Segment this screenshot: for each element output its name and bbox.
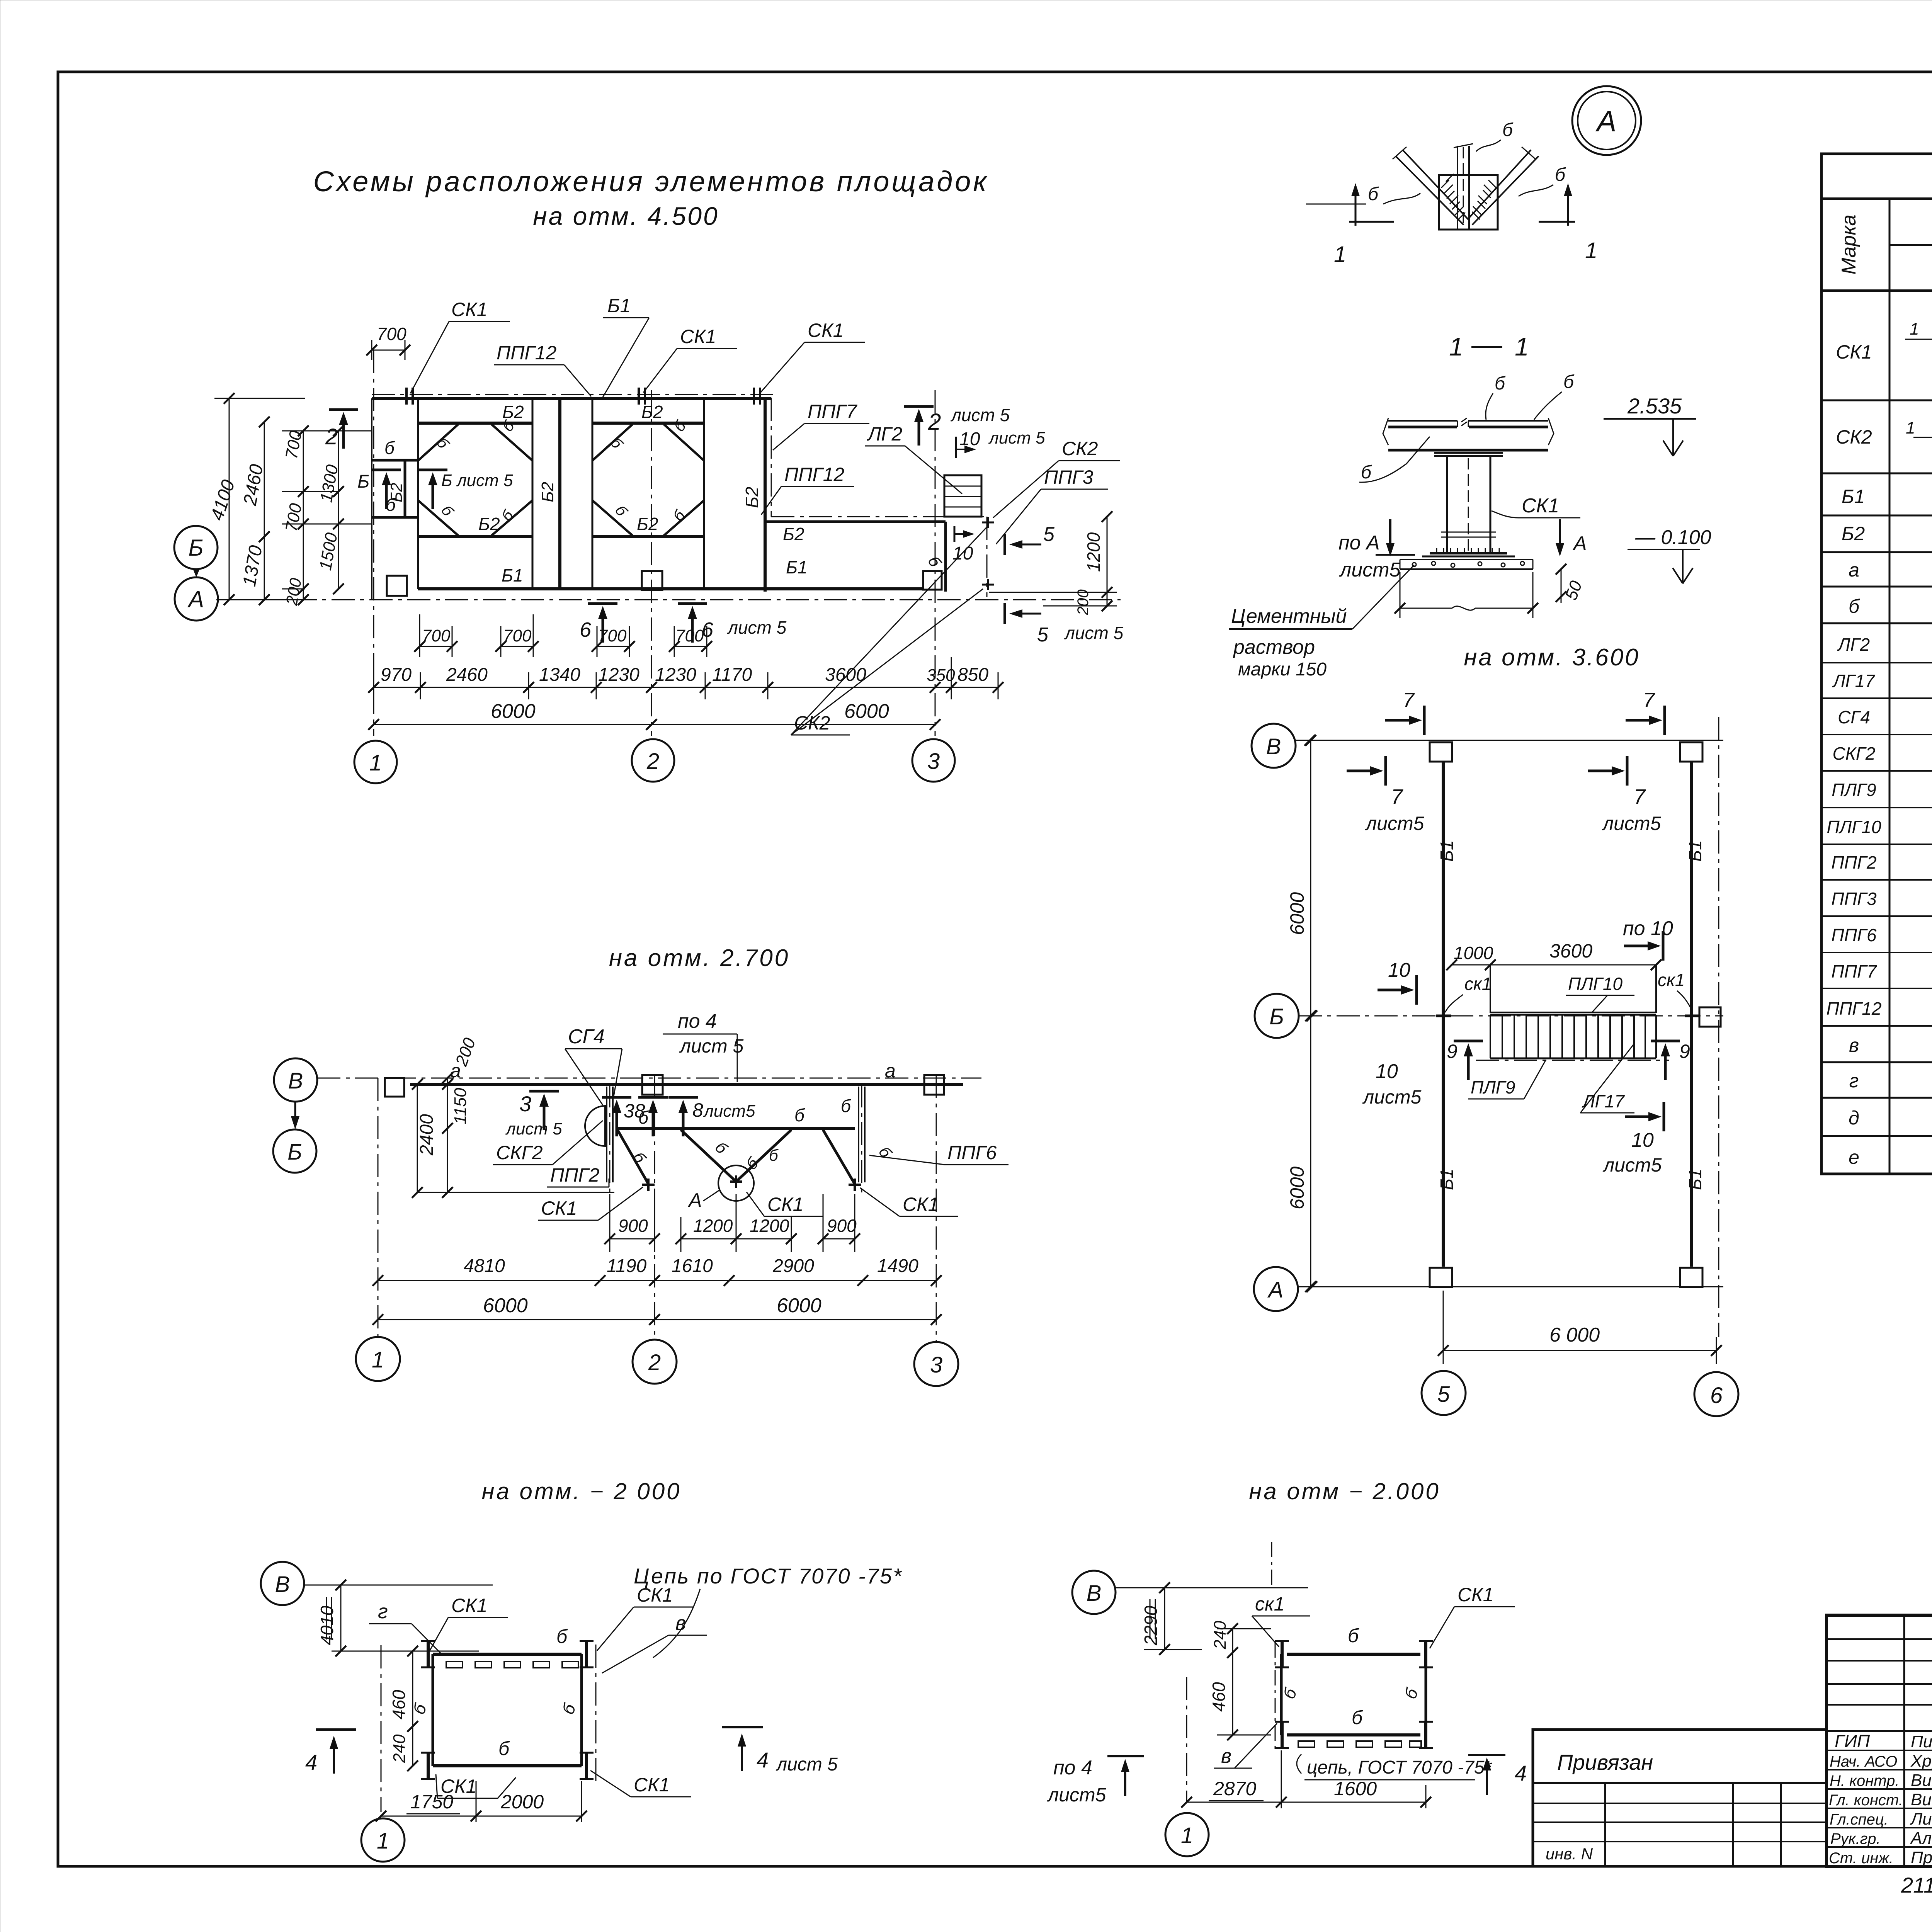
truss diagonal 4: [823, 1130, 855, 1184]
column А6: [1680, 1268, 1702, 1287]
cell 2 top chord Б2: [592, 422, 704, 425]
svg-text:СК1: СК1: [451, 299, 487, 320]
svg-text:Винклер: Винклер: [1911, 1790, 1932, 1809]
svg-text:марки 150: марки 150: [1238, 659, 1327, 680]
svg-text:Пивторак: Пивторак: [1911, 1732, 1932, 1751]
right diagonal member: [1468, 150, 1539, 225]
row д: [1821, 1135, 1932, 1137]
svg-text:А: А: [1267, 1277, 1284, 1303]
svg-text:ППГ6: ППГ6: [947, 1142, 997, 1163]
6 лист5 marks: [588, 604, 617, 643]
8 лист5 mark: [668, 1097, 698, 1136]
svg-text:в: в: [675, 1612, 686, 1634]
svg-text:1: 1: [1906, 418, 1915, 437]
floor beam bottom line: [1388, 449, 1548, 452]
cell 1 right beam: [532, 398, 534, 589]
svg-text:2: 2: [928, 409, 941, 435]
axis circle А: [1254, 1267, 1298, 1311]
svg-text:г: г: [378, 1600, 388, 1623]
ПЛГ10 plate rect: [1490, 965, 1656, 1012]
38 mark arrows: [602, 1097, 631, 1136]
svg-text:1: 1: [1449, 332, 1463, 361]
svg-text:6: 6: [1710, 1383, 1723, 1408]
axis circle В: [1252, 724, 1296, 768]
svg-text:1230: 1230: [598, 665, 639, 685]
beam joint step: [1458, 418, 1468, 427]
svg-text:2900: 2900: [772, 1256, 814, 1276]
5 section mark upper: [1003, 534, 1006, 555]
svg-text:б: б: [433, 435, 452, 452]
column В5: [1430, 742, 1452, 762]
Б2 vertical beam left bay: [404, 460, 406, 517]
svg-text:Б2: Б2: [783, 524, 804, 544]
СК1 joint tick top mid: [639, 388, 645, 405]
column square 2: [642, 571, 662, 590]
привязан header bottom: [1533, 1782, 1827, 1784]
truss diagonal 2: [681, 1130, 736, 1182]
axis В line: [317, 1078, 981, 1079]
svg-text:4100: 4100: [207, 477, 239, 523]
svg-text:на отм − 2.000: на отм − 2.000: [1249, 1478, 1440, 1504]
по А mark left: [1389, 519, 1391, 549]
svg-text:Б1: Б1: [1437, 840, 1457, 862]
svg-text:1370: 1370: [239, 544, 267, 588]
truss diagonal 3: [736, 1130, 791, 1182]
dim 2400: [417, 1084, 418, 1192]
section 1 mark right: [1539, 221, 1575, 223]
svg-text:А: А: [1595, 105, 1617, 138]
svg-text:900: 900: [618, 1216, 648, 1236]
grid circle 1: [1165, 1813, 1209, 1856]
svg-text:ППГ3: ППГ3: [1044, 466, 1094, 488]
truss bottom chord б: [617, 1127, 855, 1130]
5 section mark lower: [1003, 603, 1006, 624]
svg-text:700: 700: [503, 626, 532, 645]
svg-text:Рук.гр.: Рук.гр.: [1830, 1830, 1881, 1847]
box top chord б: [433, 1653, 582, 1656]
svg-text:В: В: [1087, 1581, 1102, 1606]
stair ladder top line: [1490, 1014, 1656, 1016]
axis В line: [1296, 740, 1723, 741]
svg-text:ПЛГ10: ПЛГ10: [1568, 974, 1622, 994]
grid circle 1: [354, 741, 397, 783]
column СК1: [1447, 456, 1490, 553]
section mark 7 лист5 right: [1588, 756, 1627, 786]
svg-text:1: 1: [369, 750, 382, 776]
svg-text:г: г: [1849, 1070, 1859, 1092]
dim 240/460: [1232, 1629, 1233, 1735]
svg-text:СК1: СК1: [1522, 495, 1559, 517]
dim 460/240: [412, 1651, 413, 1766]
svg-text:б: б: [612, 502, 631, 520]
beam end break marks: [1383, 418, 1554, 445]
svg-text:СКГ2: СКГ2: [496, 1142, 543, 1163]
detail circle around center foot: [718, 1165, 754, 1201]
svg-text:1: 1: [1515, 332, 1529, 361]
grid 6 axis dash-dot: [1718, 717, 1719, 1337]
grid circle 3: [914, 1342, 958, 1386]
svg-text:б: б: [1401, 1685, 1422, 1701]
beam Б1 axis5: [1442, 762, 1445, 1267]
svg-text:1: 1: [372, 1347, 384, 1372]
beam Б2 right thick: [766, 520, 946, 523]
svg-text:ПЛГ9: ПЛГ9: [1471, 1077, 1515, 1097]
svg-text:2460: 2460: [240, 463, 267, 507]
svg-text:на отм. 2.700: на отм. 2.700: [609, 945, 790, 971]
left edge beam: [371, 398, 372, 600]
svg-text:ППГ12: ППГ12: [784, 464, 844, 485]
svg-text:9: 9: [1679, 1041, 1690, 1062]
СК1 joint tick top left: [406, 388, 413, 405]
svg-text:1: 1: [1181, 1823, 1193, 1848]
svg-text:2290: 2290: [1141, 1605, 1161, 1646]
row СК2 bottom line: [1821, 473, 1932, 474]
left dash-dot axis: [1275, 1642, 1276, 1750]
row ППГ12: [1821, 1025, 1932, 1027]
А mark right: [1559, 519, 1561, 549]
top beam ППГ12 thick: [372, 397, 771, 400]
svg-text:лист5: лист5: [1362, 1086, 1422, 1108]
row г: [1821, 1097, 1932, 1099]
svg-text:СК1: СК1: [634, 1774, 670, 1796]
I symbols at truss feet: [642, 1184, 655, 1186]
svg-text:5: 5: [1043, 523, 1055, 546]
svg-text:б: б: [712, 1138, 731, 1158]
cell 2 braces: [592, 424, 704, 536]
svg-text:б: б: [1555, 165, 1566, 185]
grid circle 1: [361, 1818, 405, 1862]
ППГ6 vertical dash-dot: [861, 1084, 862, 1192]
svg-text:4: 4: [1515, 1761, 1527, 1785]
svg-text:7: 7: [1643, 689, 1655, 712]
svg-text:Б2: Б2: [478, 514, 500, 534]
СК1 connection symbol right: [1685, 1015, 1699, 1017]
svg-text:б: б: [841, 1096, 852, 1116]
svg-text:инв. N: инв. N: [1546, 1845, 1593, 1863]
ППГ2 vertical dash-dot: [609, 1084, 611, 1192]
row ППГ3: [1821, 915, 1932, 917]
svg-text:б: б: [638, 1107, 649, 1128]
axis circle А: [175, 577, 218, 621]
svg-text:1490: 1490: [877, 1256, 918, 1276]
column square 1: [387, 576, 407, 596]
svg-text:ППГ3: ППГ3: [1831, 889, 1877, 909]
grout pad: [1400, 560, 1533, 569]
svg-text:ЛГ2: ЛГ2: [867, 423, 902, 445]
left bay channel б upper: [372, 459, 418, 462]
column square 2: [642, 1075, 663, 1095]
svg-text:б: б: [742, 1153, 762, 1173]
svg-text:Б2: Б2: [502, 402, 524, 422]
grid circle 3: [912, 739, 955, 782]
axis circle В: [261, 1562, 304, 1605]
svg-text:ППГ2: ППГ2: [1831, 852, 1876, 872]
grid circle 1: [356, 1337, 400, 1381]
svg-text:Б1: Б1: [1685, 1168, 1705, 1190]
svg-text:7: 7: [1403, 689, 1415, 712]
right dash-dot edge ППГ7: [771, 398, 772, 517]
svg-text:СГ4: СГ4: [1838, 707, 1870, 727]
column square 1: [385, 1078, 404, 1097]
svg-text:В: В: [275, 1572, 290, 1597]
row ЛГ2: [1821, 662, 1932, 663]
svg-text:лист5: лист5: [1602, 813, 1661, 834]
svg-text:СК2: СК2: [1836, 426, 1872, 448]
svg-text:Хрупало: Хрупало: [1910, 1752, 1932, 1770]
dim chain row: [374, 687, 998, 688]
svg-text:8: 8: [692, 1099, 703, 1121]
10 mark in right box: [954, 526, 956, 542]
svg-text:б: б: [629, 1148, 650, 1167]
svg-text:1230: 1230: [655, 665, 696, 685]
svg-text:200: 200: [1075, 589, 1092, 616]
table header bottom line: [1821, 289, 1932, 292]
svg-text:лист 5: лист 5: [679, 1035, 744, 1057]
svg-text:6000: 6000: [1286, 892, 1308, 935]
column base plate: [1430, 552, 1507, 554]
arrow Б to А: [196, 569, 197, 572]
svg-text:А: А: [187, 586, 204, 612]
svg-text:700: 700: [282, 429, 306, 460]
привязан table border: [1533, 1730, 1827, 1866]
svg-text:по 4: по 4: [1053, 1757, 1092, 1779]
left vertical dims: [229, 398, 230, 600]
svg-text:Винклер: Винклер: [1911, 1771, 1932, 1790]
svg-text:2460: 2460: [446, 665, 488, 685]
svg-text:ППГ12: ППГ12: [497, 342, 556, 364]
svg-text:6: 6: [580, 618, 592, 641]
svg-text:1340: 1340: [539, 665, 580, 685]
svg-text:9: 9: [1447, 1041, 1458, 1062]
bottom beam Б1: [418, 587, 924, 590]
dim 6000 row: [374, 724, 935, 725]
СГ4 half circle symbol: [585, 1106, 605, 1146]
svg-text:ЛГ2: ЛГ2: [1837, 634, 1870, 655]
svg-text:460: 460: [389, 1690, 409, 1719]
svg-text:700: 700: [377, 324, 406, 344]
svg-text:б: б: [498, 1738, 510, 1759]
row ПЛГ10: [1821, 844, 1932, 845]
svg-text:лист 5: лист 5: [1064, 623, 1124, 643]
svg-text:Б1: Б1: [1685, 840, 1705, 862]
svg-text:7: 7: [1634, 785, 1646, 808]
svg-text:лист 5: лист 5: [727, 617, 787, 638]
cell 1 braces: [418, 424, 532, 536]
svg-text:СК1: СК1: [637, 1584, 673, 1606]
chain dashes top: [446, 1662, 578, 1668]
svg-text:2: 2: [648, 1350, 661, 1375]
svg-text:2400: 2400: [417, 1114, 437, 1156]
row СК1 sketch I-column: [1905, 294, 1932, 395]
svg-text:Н. контр.: Н. контр.: [1830, 1772, 1900, 1789]
svg-text:4: 4: [305, 1750, 317, 1774]
svg-text:цепь, ГОСТ 7070 -75*: цепь, ГОСТ 7070 -75*: [1307, 1757, 1492, 1778]
svg-text:СК1: СК1: [808, 320, 844, 341]
axis circle Б: [174, 526, 218, 569]
svg-text:раствор: раствор: [1233, 636, 1315, 658]
grid 3 axis: [936, 1075, 937, 1341]
svg-text:по 10: по 10: [1623, 917, 1673, 940]
svg-text:6000: 6000: [483, 1294, 528, 1317]
svg-text:а: а: [1849, 559, 1859, 581]
svg-text:Б: Б: [357, 471, 369, 492]
detail circle А: [1572, 86, 1641, 155]
svg-text:3: 3: [519, 1092, 531, 1116]
svg-text:1: 1: [1910, 320, 1919, 338]
right dash-dot axis в: [595, 1645, 597, 1781]
svg-text:б: б: [607, 435, 626, 452]
svg-text:1200: 1200: [693, 1216, 733, 1236]
svg-text:ГИП: ГИП: [1835, 1731, 1870, 1751]
svg-text:ск1: ск1: [1255, 1593, 1284, 1615]
anchor studs: [1437, 548, 1499, 553]
cell 1 left beam: [417, 398, 419, 589]
svg-text:1190: 1190: [607, 1256, 647, 1276]
section mark 2 лист5 right: [904, 406, 934, 446]
stub axis above box: [1271, 1542, 1272, 1588]
svg-text:СК2: СК2: [1062, 438, 1098, 459]
svg-text:700: 700: [422, 626, 451, 645]
svg-text:1600: 1600: [1334, 1778, 1377, 1799]
bottom dims 2870 1600: [1187, 1802, 1426, 1803]
svg-text:лист5: лист5: [1602, 1154, 1662, 1176]
svg-text:е: е: [1849, 1146, 1859, 1168]
column А5: [1430, 1268, 1452, 1287]
svg-text:б: б: [1352, 1707, 1363, 1728]
svg-text:б: б: [1849, 595, 1860, 617]
svg-text:1750: 1750: [410, 1791, 453, 1813]
column square 3: [924, 1075, 944, 1095]
svg-text:3: 3: [930, 1352, 942, 1378]
gusset plate: [1439, 175, 1498, 230]
svg-text:1: 1: [1334, 242, 1346, 267]
svg-text:6000: 6000: [777, 1294, 821, 1317]
svg-text:970: 970: [381, 665, 412, 685]
row а: [1821, 586, 1932, 588]
grid circle 2: [633, 1340, 677, 1384]
row ПЛГ9: [1821, 807, 1932, 808]
section mark 4 left: [316, 1728, 356, 1731]
column cap plate: [1434, 453, 1503, 456]
right box dash-dot vertical: [986, 517, 988, 597]
svg-text:б: б: [1279, 1685, 1301, 1701]
svg-text:50: 50: [1561, 578, 1586, 602]
svg-text:б: б: [1361, 462, 1372, 483]
ladder rungs: [1490, 1015, 1656, 1058]
floor beam top lines: [1388, 420, 1548, 422]
row СК1 bottom line: [1821, 400, 1932, 401]
svg-text:1200: 1200: [750, 1216, 789, 1236]
svg-text:В: В: [288, 1068, 303, 1094]
cell 1 bottom chord Б2: [418, 535, 532, 538]
svg-text:200: 200: [452, 1035, 480, 1069]
svg-text:ск1: ск1: [1464, 974, 1492, 994]
axis Б line: [1299, 1015, 1723, 1017]
box left beam б: [432, 1654, 434, 1766]
svg-text:Гл. конст.: Гл. конст.: [1829, 1792, 1903, 1809]
grid 1 axis: [381, 1645, 382, 1812]
dim 50: [1561, 569, 1562, 603]
left diagonal member: [1396, 150, 1468, 225]
svg-text:на отм. 4.500: на отм. 4.500: [533, 202, 719, 230]
dim chain row: [378, 1280, 936, 1281]
СК1 joint tick top right: [754, 388, 760, 405]
row Б2: [1821, 551, 1932, 553]
svg-text:Пронина: Пронина: [1911, 1848, 1932, 1867]
table header mid split line: [1889, 244, 1932, 246]
row СКГ2: [1821, 770, 1932, 772]
bottom dim 6000: [1443, 1350, 1716, 1351]
arrow В to Б: [294, 1102, 296, 1119]
dim 6000 row: [378, 1319, 936, 1320]
svg-text:а: а: [885, 1060, 896, 1082]
box top chord б: [1287, 1653, 1420, 1656]
svg-text:Алехова: Алехова: [1910, 1829, 1932, 1848]
svg-text:1: 1: [377, 1828, 389, 1854]
svg-text:1500: 1500: [316, 531, 341, 571]
small 700 dims bottom: [420, 646, 707, 647]
column square 3: [923, 571, 942, 590]
row в: [1821, 1061, 1932, 1063]
svg-text:460: 460: [1209, 1682, 1229, 1712]
svg-text:СК1: СК1: [1458, 1584, 1493, 1605]
svg-text:б: б: [438, 502, 457, 520]
svg-text:б: б: [1502, 120, 1514, 140]
svg-text:Цепь по ГОСТ 7070 -75*: Цепь по ГОСТ 7070 -75*: [634, 1564, 903, 1588]
svg-text:лист5: лист5: [1047, 1784, 1106, 1806]
svg-text:б: б: [1495, 373, 1506, 394]
svg-text:лист 5: лист 5: [505, 1119, 562, 1138]
svg-text:А: А: [1572, 532, 1587, 555]
svg-text:4: 4: [757, 1748, 769, 1772]
Б лист5 mark: [418, 470, 447, 509]
title block left row lines: [1827, 1639, 1932, 1705]
svg-text:ЛГ17: ЛГ17: [1832, 671, 1875, 691]
svg-text:б: б: [1563, 372, 1575, 392]
axis А line: [1298, 1286, 1723, 1287]
beam Б1 axis6: [1690, 762, 1693, 1267]
svg-text:2000: 2000: [500, 1791, 544, 1813]
chain dashes bottom: [1298, 1741, 1421, 1747]
цепь ГОСТ label: [1297, 1754, 1301, 1774]
box bottom chord б: [1287, 1733, 1420, 1736]
cell 2 bottom chord Б2: [592, 535, 704, 538]
dim 6000 left lower: [1310, 1016, 1311, 1287]
box left beam: [1280, 1654, 1283, 1735]
section 1 mark left: [1349, 221, 1394, 223]
axis В line: [304, 1585, 493, 1586]
svg-text:Цементный: Цементный: [1231, 605, 1347, 628]
svg-text:СКГ2: СКГ2: [1833, 743, 1876, 764]
svg-text:2: 2: [646, 749, 659, 774]
svg-text:Б2: Б2: [641, 402, 663, 422]
svg-text:б: б: [558, 1701, 580, 1717]
weld hatch left: [1441, 174, 1465, 220]
stair ladder bottom line: [1490, 1058, 1656, 1060]
svg-text:6 000: 6 000: [1549, 1324, 1600, 1346]
svg-text:ППГ12: ППГ12: [1827, 998, 1882, 1019]
section mark 7 лист5 left: [1347, 756, 1386, 786]
svg-text:Б лист 5: Б лист 5: [441, 471, 513, 490]
svg-text:Б1: Б1: [1437, 1168, 1457, 1190]
axis circle В: [274, 1058, 317, 1102]
column Б6: [1699, 1007, 1721, 1027]
table title underline row: [1821, 197, 1932, 200]
row СГ4: [1821, 734, 1932, 735]
row ППГ2: [1821, 879, 1932, 881]
svg-text:ск1: ск1: [1658, 970, 1685, 990]
svg-text:2870: 2870: [1213, 1778, 1256, 1799]
